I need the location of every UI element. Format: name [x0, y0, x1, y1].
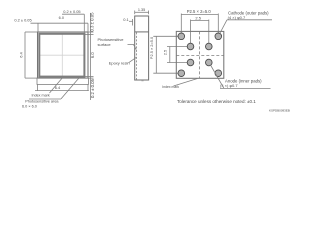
- svg-text:KSPDB0093EB: KSPDB0093EB: [269, 109, 290, 113]
- svg-text:6.0: 6.0: [90, 52, 95, 58]
- svg-text:Index mark: Index mark: [162, 85, 179, 89]
- svg-text:P2.5 × 2=5.0: P2.5 × 2=5.0: [149, 36, 154, 59]
- svg-text:0.2 ± 0.05: 0.2 ± 0.05: [63, 9, 80, 14]
- svg-text:6.4: 6.4: [18, 51, 23, 57]
- svg-text:Index mark: Index mark: [32, 93, 50, 97]
- svg-text:Tolerance unless otherwise not: Tolerance unless otherwise noted: ±0.1: [177, 99, 256, 104]
- svg-text:6.0: 6.0: [59, 16, 64, 20]
- svg-text:(4 ×) φ0.7: (4 ×) φ0.7: [228, 15, 246, 20]
- svg-text:P2.5 × 2=5.0: P2.5 × 2=5.0: [187, 9, 212, 14]
- svg-text:6.0 × 6.0: 6.0 × 6.0: [22, 105, 37, 109]
- svg-text:Photosensitive area: Photosensitive area: [25, 100, 59, 104]
- svg-text:Epoxy resin: Epoxy resin: [109, 60, 130, 65]
- svg-text:2.5: 2.5: [162, 49, 167, 55]
- svg-text:0.3 ± 0.05: 0.3 ± 0.05: [90, 12, 95, 32]
- svg-text:surface: surface: [98, 42, 112, 47]
- svg-text:0.2 ± 0.05: 0.2 ± 0.05: [90, 78, 95, 98]
- svg-text:1.35: 1.35: [138, 8, 145, 12]
- svg-text:2.5: 2.5: [195, 15, 201, 20]
- svg-text:0.1: 0.1: [123, 17, 129, 22]
- svg-text:0.2 ± 0.05: 0.2 ± 0.05: [14, 18, 31, 23]
